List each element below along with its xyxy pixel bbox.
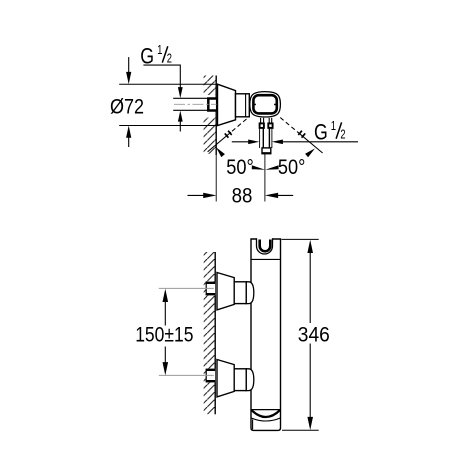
thread mark right [298,131,305,138]
wall line (lower view) [214,252,216,414]
angle arrowhead on right axis [305,148,315,157]
pipe centerline (gray dash-dot) [174,103,217,105]
outlet centerline extension [264,154,266,202]
svg-text:50°: 50° [226,155,254,179]
outlet collar nuts [260,123,264,128]
wall line (top view) [215,76,217,156]
G1/2 outlet leader left segment [232,140,260,145]
lower union: escutcheon [217,360,234,397]
body top section line [251,258,281,260]
outlet tip [262,148,271,154]
shower hook notch [257,238,273,254]
dia 72 extension lines [119,83,217,85]
right 50-degree dashed axis [280,118,322,154]
wall extension line down to 88 dim [215,155,217,202]
thread mark left [225,131,232,138]
svg-text:G: G [314,120,328,145]
lower union: stub in wall [206,369,215,383]
angle arrowhead on left axis [216,147,225,157]
150 +/- 15 dimension [163,289,169,376]
upper union: escutcheon [217,273,234,310]
upper union: stub in wall [206,282,215,296]
G1/2 top leader [143,65,182,131]
88 dimension [188,193,294,198]
346 dimension [282,239,319,430]
wall socket nut (top view) [208,99,217,111]
outlet shaft [260,128,272,148]
svg-text:G: G [140,43,154,68]
svg-text:150±15: 150±15 [135,322,193,346]
wall hatching (lower view) [204,252,216,414]
text G1/2 (top) [140,43,172,68]
handle outer (top view) [250,92,281,117]
bottom cap of body [251,410,281,430]
union centerlines (gray) [159,287,214,289]
mixer body [251,239,281,430]
text G1/2 (right) [314,119,346,144]
svg-text:88: 88 [232,184,253,208]
svg-text:2: 2 [340,128,345,142]
svg-text:50°: 50° [278,155,306,179]
connector cylinder (top view) [236,94,250,117]
handle side ticks [253,104,256,106]
upper union: nut [234,282,254,304]
left 50-degree dashed axis [208,119,247,152]
svg-text:1: 1 [157,43,162,57]
escutcheon (top view) [218,84,236,125]
svg-text:346: 346 [298,322,330,346]
svg-text:1: 1 [331,119,336,133]
outlet neck [259,118,272,154]
wall hatching (top view) [204,76,217,154]
svg-text:2: 2 [167,52,172,66]
dia 72 dimension arrows [126,57,131,147]
lower union: nut [234,369,254,391]
union pipe in wall (top view) [173,98,207,110]
handle inner [253,95,276,113]
G1/2 outlet leader right segment [272,140,358,145]
angle arc arrowheads at axis (bowtie) [252,165,265,170]
svg-text:Ø72: Ø72 [110,95,144,119]
